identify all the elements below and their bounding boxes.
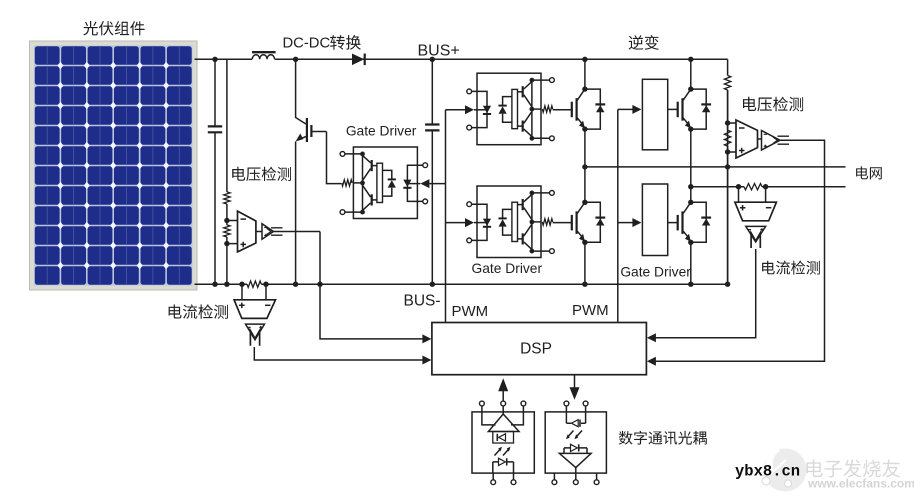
svg-text:Gate Driver: Gate Driver [472,261,543,276]
svg-text:DC-DC: DC-DC [283,36,331,52]
svg-text:PWM: PWM [572,302,609,319]
svg-text:PWM: PWM [452,303,489,320]
svg-text:www.elecfans.com: www.elecfans.com [807,477,914,491]
svg-text:Gate Driver: Gate Driver [346,124,417,139]
svg-text:BUS+: BUS+ [418,43,460,60]
svg-text:BUS-: BUS- [404,293,441,310]
svg-text:Gate Driver: Gate Driver [620,265,691,280]
svg-text:ybx8.cn: ybx8.cn [735,463,800,481]
svg-text:DSP: DSP [520,341,552,358]
